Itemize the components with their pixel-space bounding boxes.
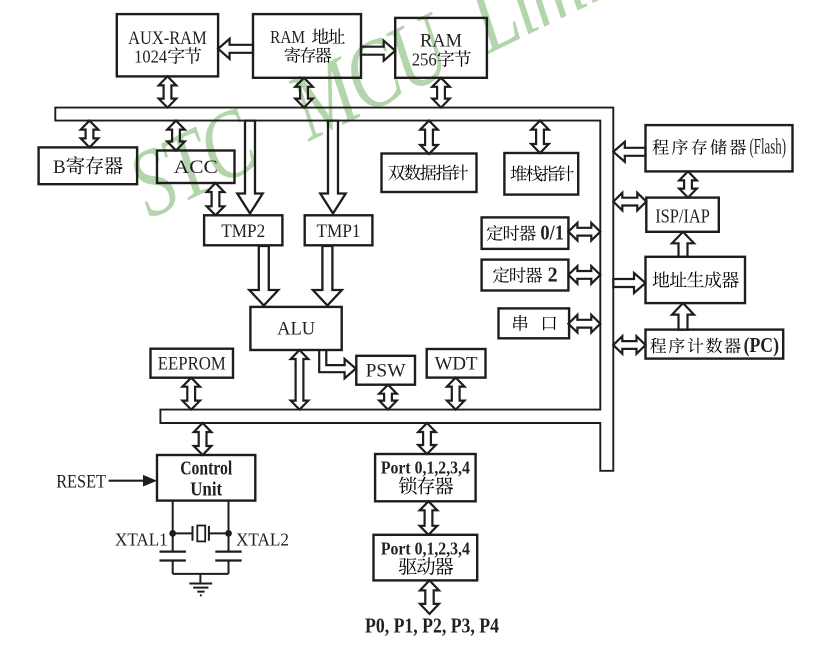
svg-text:XTAL1: XTAL1 — [115, 530, 168, 550]
box TMP1 — [305, 215, 373, 245]
svg-text:0/1: 0/1 — [540, 221, 564, 245]
svg-text:TMP1: TMP1 — [317, 222, 361, 242]
crystal Y1 plates — [193, 526, 209, 541]
capacitor C2 plates — [215, 552, 241, 561]
box stack pointer — [504, 153, 578, 195]
box ALU — [250, 307, 341, 350]
arrow Flash to ISP/IAP — [679, 171, 697, 197]
wire Control-Unit to XTAL1 node — [172, 501, 174, 552]
svg-text:XTAL2: XTAL2 — [236, 530, 289, 550]
box AUX-RAM — [117, 14, 218, 76]
svg-text:Port 0,1,2,3,4: Port 0,1,2,3,4 — [381, 458, 470, 478]
arrow EEPROM to bus2 — [182, 378, 200, 410]
arrow bus to B-register — [81, 121, 99, 148]
svg-text:2: 2 — [548, 263, 558, 287]
svg-text:PSW: PSW — [366, 362, 407, 382]
arrow bus to ISP/IAP — [613, 193, 646, 211]
svg-text:RAM: RAM — [420, 32, 462, 52]
box PSW — [356, 356, 415, 385]
box B register — [39, 147, 138, 184]
arrow bus to TMP1 (long) — [320, 121, 345, 214]
wire rail to ground symbol — [199, 574, 201, 584]
label serial port — [513, 315, 527, 331]
box timer 2 — [482, 260, 569, 291]
crystal Y1 leads — [173, 532, 229, 534]
svg-text:(PC): (PC) — [744, 333, 779, 357]
label Port latch line2 — [399, 477, 417, 495]
svg-text:TMP2: TMP2 — [221, 222, 265, 242]
arrow bus2 to Control-Unit — [194, 423, 212, 455]
label RAM addr line2 — [285, 47, 300, 63]
box Control Unit — [157, 455, 255, 501]
arrow bus to dual-data-pointer — [420, 121, 438, 154]
arrow RAM-addr-reg to RAM256 — [361, 41, 395, 61]
arrow ALU to bus2 — [291, 350, 309, 410]
wire ground rail — [173, 573, 229, 575]
arrow RAM-addr-reg to AUX-RAM — [218, 39, 253, 59]
svg-text:ALU: ALU — [277, 319, 315, 340]
svg-text:ACC: ACC — [174, 158, 218, 178]
svg-text:Unit: Unit — [190, 480, 222, 501]
svg-text:P0, P1, P2, P3, P4: P0, P1, P2, P3, P4 — [365, 614, 499, 638]
arrow bus to address-generator — [613, 273, 645, 293]
node XTAL2 junction dot — [225, 530, 232, 537]
box timer 0/1 — [482, 217, 569, 249]
svg-text:256: 256 — [412, 50, 437, 70]
wire Control-Unit to XTAL2 node — [228, 501, 230, 552]
box ACC — [157, 151, 235, 184]
arrow WDT to bus2 — [447, 378, 465, 410]
box dual data pointer — [382, 154, 477, 193]
arrow bus to TMP2 (long) — [237, 121, 262, 214]
box Port latch — [375, 454, 476, 501]
arrow Flash to bus — [613, 142, 645, 162]
label timer 0/1 — [487, 225, 503, 241]
svg-text:1024: 1024 — [134, 47, 167, 67]
box RAM address register — [253, 14, 361, 78]
label program counter — [650, 338, 666, 354]
arrow serial to bus — [568, 315, 600, 333]
arrow Port-latch to Port-driver — [420, 501, 438, 535]
arrow TMP1 to ALU — [313, 246, 342, 306]
arrow TMP2 to ALU — [249, 246, 278, 306]
svg-text:ISP/IAP: ISP/IAP — [655, 205, 710, 227]
node XTAL1 junction dot — [169, 530, 176, 537]
box program counter PC — [646, 330, 784, 359]
arrow bus2 to Port-latch — [418, 423, 436, 454]
box ISP/IAP — [646, 198, 719, 232]
ground symbol — [189, 584, 212, 596]
svg-text:B: B — [53, 157, 66, 178]
wire C2 to ground rail — [228, 561, 230, 574]
arrow RAM-addr-reg to bus — [295, 78, 313, 108]
box WDT — [427, 349, 486, 378]
arrow ACC to TMP2 — [207, 183, 225, 215]
box program memory Flash — [646, 125, 793, 171]
label dual data pointer — [388, 165, 404, 180]
box RAM 256 byte — [395, 18, 487, 78]
arrow AUX-RAM to bus — [159, 76, 177, 107]
label stack pointer — [511, 165, 527, 181]
box Port driver — [374, 535, 478, 581]
wire C1 to ground rail — [172, 561, 174, 574]
arrow timer2 to bus — [568, 266, 600, 284]
label program memory Flash — [653, 139, 669, 155]
arrow PC to address-generator — [672, 303, 694, 330]
label Port driver line2 — [399, 558, 417, 575]
capacitor C1 plates — [160, 552, 186, 561]
arrow bus to stack-pointer — [531, 121, 549, 153]
svg-text:(Flash): (Flash) — [750, 134, 787, 159]
box serial port — [499, 308, 570, 338]
arrow PSW to bus2 — [379, 385, 397, 410]
arrow Port-driver to pins — [420, 580, 439, 614]
svg-text:EEPROM: EEPROM — [158, 355, 226, 375]
box TMP2 — [204, 215, 282, 245]
arrow bus to ACC — [167, 121, 185, 151]
svg-text:WDT: WDT — [435, 355, 478, 375]
arrow RAM256 to bus — [432, 78, 450, 108]
arrow bus to PC — [613, 336, 645, 354]
watermark STC MCU Limited — [112, 0, 696, 238]
arrow address-generator to ISP/IAP — [672, 232, 694, 257]
svg-text:Control: Control — [180, 459, 232, 480]
box address generator — [646, 257, 746, 303]
svg-text:Port 0,1,2,3,4: Port 0,1,2,3,4 — [381, 539, 470, 559]
arrow ALU to PSW (L-shaped) — [319, 350, 356, 378]
box EEPROM — [151, 349, 234, 378]
svg-text:RESET: RESET — [56, 473, 106, 493]
RESET wire with arrowhead — [109, 480, 144, 482]
arrow timer01 to bus — [568, 223, 600, 241]
bus: main data bus (top horizontal + right vertical + lower horizontal) — [55, 108, 613, 471]
label timer 2 — [493, 267, 509, 283]
label address generator — [653, 271, 670, 287]
crystal Y1 body — [197, 526, 205, 542]
svg-text:RAM: RAM — [270, 27, 305, 47]
